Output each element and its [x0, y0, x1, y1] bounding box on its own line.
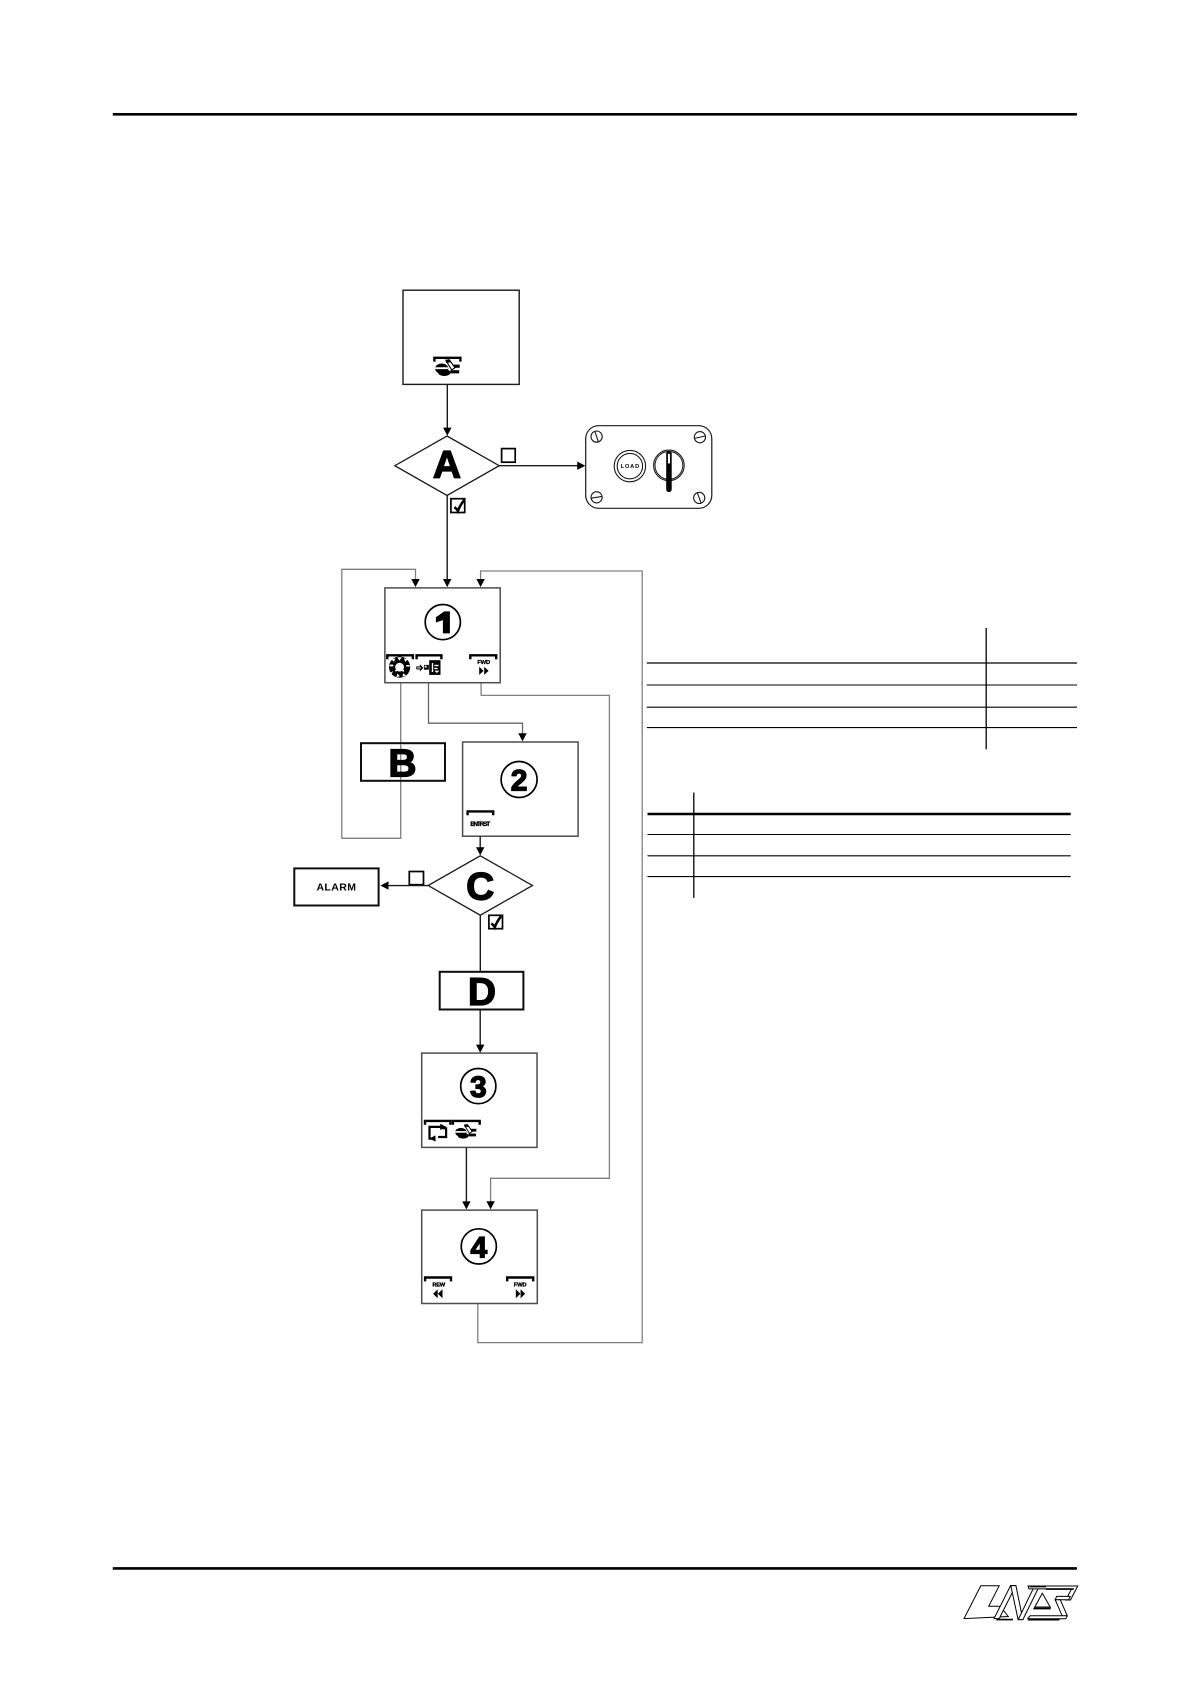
panel screw top-right	[694, 432, 705, 443]
svg-text:ENTRST: ENTRST	[470, 821, 490, 828]
no checkbox of A	[502, 449, 516, 463]
svg-text:B: B	[388, 742, 416, 785]
box 4 rewind icon	[433, 1289, 442, 1298]
svg-text:C: C	[466, 866, 494, 909]
annotation rules group 2	[648, 814, 1071, 877]
svg-text:FWD: FWD	[514, 1282, 527, 1288]
svg-text:4: 4	[470, 1231, 487, 1264]
box 4 REW key bracket	[425, 1278, 451, 1282]
box 1 FWD label	[477, 660, 490, 666]
circled number 1	[425, 605, 460, 640]
process box B	[361, 742, 445, 785]
decision C diamond	[428, 856, 532, 915]
LNS logo	[964, 1586, 1078, 1621]
box 1 dial icon	[389, 657, 410, 678]
wire box 3 to box 4	[462, 1147, 470, 1209]
box 2 ENT RST label	[470, 821, 490, 828]
process box 1	[385, 588, 500, 683]
box 4 FWD label	[514, 1282, 527, 1288]
annotation rules group 1 vertical	[985, 628, 987, 749]
circled number 4	[461, 1229, 496, 1265]
box 3 cycle icon	[429, 1124, 446, 1142]
process box 4	[422, 1210, 538, 1303]
process box 2	[463, 742, 578, 836]
panel screw bottom-left	[591, 492, 602, 503]
wire loop from box 4 back to box 1	[476, 571, 642, 1343]
LOAD button	[614, 450, 645, 481]
box 4 fast forward icon	[516, 1289, 525, 1298]
box 1 fast forward icon	[479, 667, 488, 675]
yes checkbox of A	[451, 499, 465, 513]
wire loop from B back to box 1	[342, 569, 420, 838]
box 3 cycle key bracket	[425, 1121, 450, 1125]
circled number 3	[461, 1069, 496, 1105]
wire A to key panel	[499, 462, 585, 470]
svg-text:LOAD: LOAD	[621, 464, 640, 470]
box 4 REW label	[432, 1282, 445, 1288]
wire start to A	[443, 384, 451, 435]
key switch panel plate	[586, 426, 712, 509]
start box hand icon	[435, 360, 460, 377]
box 3 hand icon	[455, 1124, 476, 1138]
no checkbox of C	[409, 872, 423, 885]
wire D to box 3	[476, 1010, 484, 1053]
panel screw top-left	[591, 431, 602, 442]
wire box 2 to C	[476, 836, 484, 855]
circled number 2	[501, 762, 537, 798]
yes checkbox of C	[489, 915, 503, 928]
box 1 display icon	[429, 660, 440, 675]
ALARM box	[294, 868, 378, 905]
svg-text:D: D	[468, 971, 496, 1014]
wire box 1 to box 4	[481, 683, 609, 1210]
box 1 connector square icon	[424, 665, 429, 670]
wire A to box 1	[443, 496, 451, 588]
svg-text:2: 2	[511, 764, 528, 797]
start box key bracket	[434, 358, 460, 362]
box 2 key bracket	[468, 811, 494, 815]
box 4 FWD key bracket	[507, 1278, 533, 1282]
svg-text:FWD: FWD	[477, 660, 490, 666]
box 1 small arrow icon	[416, 664, 423, 671]
wire C to ALARM	[380, 881, 428, 889]
wire box 1 to box 2	[429, 683, 527, 742]
svg-text:3: 3	[470, 1071, 487, 1104]
footer rule	[113, 1567, 1077, 1570]
box 3 hand key bracket	[453, 1121, 480, 1125]
wire C to D	[479, 915, 481, 972]
decision A diamond	[395, 436, 499, 496]
top rule	[113, 113, 1077, 116]
svg-text:A: A	[433, 444, 461, 487]
box 1 FWD key bracket	[470, 655, 496, 659]
annotation rules group 2 vertical	[693, 793, 695, 898]
selector switch	[654, 450, 685, 492]
annotation rules group 1	[647, 663, 1077, 728]
process box 3	[422, 1053, 537, 1147]
panel screw bottom-right	[694, 492, 705, 503]
svg-text:ALARM: ALARM	[316, 881, 356, 893]
box 1 key bracket left pair	[387, 655, 441, 659]
svg-text:REW: REW	[432, 1282, 445, 1288]
process box D	[440, 971, 524, 1014]
start box	[403, 290, 519, 384]
